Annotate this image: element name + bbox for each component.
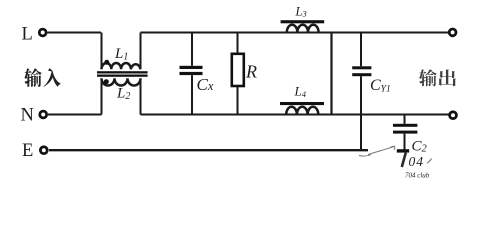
svg-text:704 club: 704 club: [405, 172, 430, 180]
svg-text:04: 04: [409, 154, 425, 169]
svg-text:L2: L2: [116, 85, 130, 102]
svg-text:Cx: Cx: [197, 75, 214, 94]
svg-text:L1: L1: [114, 46, 128, 63]
svg-text:E: E: [22, 141, 33, 161]
svg-text:R: R: [245, 62, 257, 82]
svg-text:L4: L4: [294, 84, 307, 99]
svg-text:N: N: [21, 105, 34, 125]
svg-text:L: L: [22, 24, 33, 44]
svg-text:L3: L3: [295, 4, 307, 18]
svg-text:CY1: CY1: [370, 77, 391, 95]
svg-text:C2: C2: [412, 138, 428, 154]
